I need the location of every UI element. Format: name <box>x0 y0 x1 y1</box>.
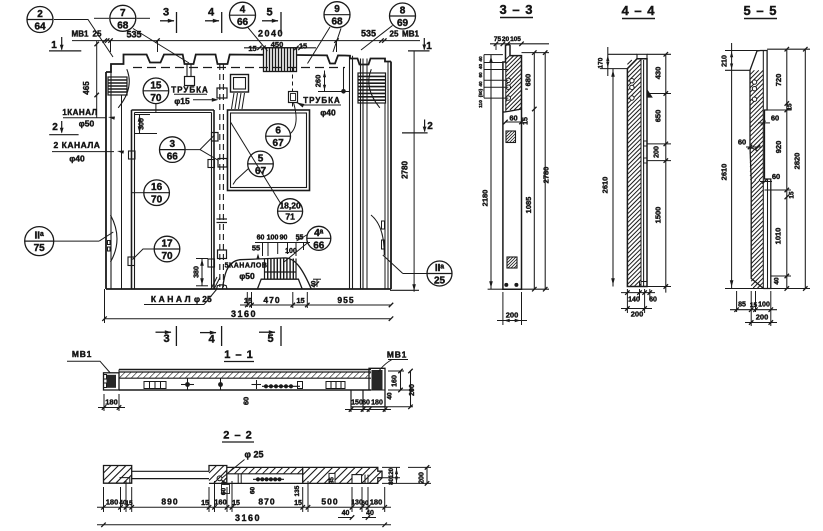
left edge small tabs <box>108 241 111 245</box>
svg-text:535: 535 <box>361 29 376 39</box>
dim 180 below left end <box>103 394 105 411</box>
svg-text:70: 70 <box>150 93 162 104</box>
right edge small tabs <box>382 221 385 229</box>
svg-text:69: 69 <box>397 18 409 29</box>
svg-text:40: 40 <box>478 81 484 87</box>
4-4 circles <box>630 79 634 83</box>
svg-text:(50): (50) <box>478 88 484 97</box>
section 1-1 top flange <box>119 369 371 371</box>
leaders from 4a/66 <box>297 235 308 242</box>
svg-text:170: 170 <box>598 57 605 68</box>
svg-text:90: 90 <box>280 235 288 242</box>
left edge lifting recess arc <box>111 215 118 262</box>
tube bundle below double box <box>232 93 235 109</box>
svg-text:2: 2 <box>52 122 58 133</box>
sub-dim 15 450 15 at comb block <box>244 47 316 49</box>
1-1 anchor dot 1 <box>185 382 190 387</box>
svg-text:66: 66 <box>313 240 325 251</box>
svg-text:ТРУБКА: ТРУБКА <box>303 96 341 105</box>
dim 380 vertical left of mound <box>201 258 203 286</box>
3-3 top right extension <box>522 52 550 54</box>
svg-text:18,20: 18,20 <box>279 201 301 211</box>
5-5 circles <box>752 80 756 84</box>
svg-text:4: 4 <box>208 7 215 19</box>
svg-text:15: 15 <box>789 191 796 199</box>
1-1 dots group (6 holes) <box>264 384 268 388</box>
svg-text:5КАНАЛОВ: 5КАНАЛОВ <box>225 263 268 270</box>
svg-text:140: 140 <box>628 297 640 304</box>
svg-text:180: 180 <box>106 498 119 507</box>
left end arc detail top <box>118 69 129 108</box>
svg-text:1010: 1010 <box>774 228 783 245</box>
svg-text:60: 60 <box>478 72 484 78</box>
svg-text:8: 8 <box>400 6 406 17</box>
dim 300 vertical inside door opening <box>139 114 141 134</box>
svg-text:3160: 3160 <box>235 513 261 523</box>
svg-text:200: 200 <box>506 311 519 320</box>
svg-text:40: 40 <box>478 56 484 62</box>
svg-text:2780: 2780 <box>401 161 410 179</box>
svg-text:80: 80 <box>389 478 395 485</box>
2-2 top strip over channel <box>227 466 303 468</box>
3-3 bottom dim 200 <box>502 292 504 325</box>
svg-text:20: 20 <box>502 36 510 43</box>
svg-text:70: 70 <box>161 251 173 262</box>
svg-text:МВ1: МВ1 <box>72 30 89 39</box>
right edge of panel <box>390 62 392 290</box>
svg-text:2 КАНАЛА: 2 КАНАЛА <box>54 140 101 150</box>
svg-text:100: 100 <box>267 235 279 242</box>
svg-text:60: 60 <box>361 500 369 507</box>
4-4 dim 2610 left <box>612 69 614 287</box>
anchor tab on door right border lower <box>208 259 215 267</box>
svg-text:25: 25 <box>93 30 102 39</box>
svg-text:2180: 2180 <box>481 190 490 207</box>
svg-text:60: 60 <box>257 235 265 242</box>
svg-text:6: 6 <box>275 126 281 137</box>
svg-text:35: 35 <box>330 477 336 484</box>
svg-text:3 – 3: 3 – 3 <box>500 2 534 17</box>
svg-text:φ40: φ40 <box>320 108 336 118</box>
svg-text:66: 66 <box>237 17 249 28</box>
bottom dim row 3160 <box>105 318 392 320</box>
2-2 bottom dim row 3160 <box>97 524 391 526</box>
2-2 notch lines <box>364 475 366 484</box>
svg-text:40: 40 <box>387 392 394 400</box>
2-2 beam (two lines) <box>132 470 209 472</box>
4-4 right dims 430 650 200 1500 <box>665 54 667 292</box>
5-5 dim 2610 left <box>731 76 733 289</box>
hatch lines left of mound <box>211 277 217 289</box>
svg-text:60: 60 <box>362 400 370 407</box>
svg-text:180: 180 <box>371 400 383 407</box>
2-2 step under strip <box>237 474 239 484</box>
svg-text:85: 85 <box>738 302 746 309</box>
svg-text:4ᵃ: 4ᵃ <box>314 228 324 239</box>
4-4 bottom dims 140 60 / 200 <box>626 289 628 313</box>
svg-text:60: 60 <box>772 172 780 181</box>
leader from 8/69 <box>361 26 393 51</box>
svg-text:535: 535 <box>126 30 141 40</box>
svg-text:3: 3 <box>170 139 176 150</box>
svg-text:60: 60 <box>250 487 257 495</box>
2-2 right side dims <box>382 466 400 468</box>
dims above mound: 60 100 90 55 <box>262 243 264 257</box>
leader from 7/68 <box>94 17 109 19</box>
svg-text:160: 160 <box>214 498 227 507</box>
svg-text:25: 25 <box>434 276 446 287</box>
svg-text:135: 135 <box>294 485 301 496</box>
svg-text:15: 15 <box>201 500 209 507</box>
anchor tab on door left border lower <box>128 257 135 266</box>
svg-text:5: 5 <box>267 333 273 345</box>
svg-text:210: 210 <box>722 55 729 67</box>
1-1 left end block MB1 <box>104 373 120 390</box>
section 1-1 body bottom <box>119 389 371 391</box>
vertical channel dashed pair <box>219 64 221 287</box>
callout circle 18,20/71 <box>278 199 303 224</box>
left end anchor zone: hatched block <box>108 77 127 95</box>
left door opening (double border) <box>131 110 133 289</box>
4-4 main bar hatched <box>627 59 647 287</box>
callout circle 16/70 <box>144 180 170 206</box>
striped channel block in mound <box>268 259 294 280</box>
svg-text:ΙΙᵃ: ΙΙᵃ <box>35 231 45 242</box>
svg-text:ТРУБКА: ТРУБКА <box>171 86 209 95</box>
svg-text:60: 60 <box>649 297 657 304</box>
svg-text:955: 955 <box>337 295 354 305</box>
svg-text:15: 15 <box>232 500 240 507</box>
callout circle ΙΙᵃ/75 <box>25 227 54 256</box>
main front view: panel outline with top notches <box>106 55 391 73</box>
svg-text:15: 15 <box>523 117 530 125</box>
svg-text:260: 260 <box>314 75 323 88</box>
H-connector on channel <box>217 218 228 220</box>
5-5 dim 2820 right <box>804 49 806 288</box>
dim 40 small near mound base <box>315 281 319 285</box>
svg-text:40: 40 <box>478 64 484 70</box>
svg-text:180: 180 <box>105 398 118 407</box>
4-4 inner layer lines <box>640 59 642 287</box>
1-1 small void <box>298 382 303 389</box>
2-2 channel dots <box>256 477 260 481</box>
svg-text:500: 500 <box>321 497 338 507</box>
svg-text:4: 4 <box>240 5 246 16</box>
svg-text:15: 15 <box>294 500 302 507</box>
leader from 18,20/71 <box>231 122 281 203</box>
bottom dim row 15/470/15/955 <box>240 304 391 306</box>
leader from 2/64 <box>54 20 113 58</box>
svg-text:2: 2 <box>37 9 43 20</box>
svg-text:МВ1: МВ1 <box>387 350 407 360</box>
svg-text:450: 450 <box>271 40 284 49</box>
3-3 left stacked dims <box>484 54 503 56</box>
svg-text:64: 64 <box>34 22 46 33</box>
small hump left of mound (kanal 25 exit) <box>217 285 228 289</box>
svg-text:1085: 1085 <box>524 197 533 214</box>
junction box on channel 3 <box>218 250 227 259</box>
svg-text:67: 67 <box>273 138 285 149</box>
3-3 dim 2180 left <box>490 55 492 290</box>
1-1 anchor dot 2 <box>218 382 223 387</box>
callout circle 4ᵃ/66 <box>307 226 331 250</box>
leader from 16/70 <box>132 192 144 194</box>
bottom edge of panel <box>106 288 391 290</box>
svg-text:25: 25 <box>390 30 399 39</box>
leader from 5/67 <box>233 169 249 185</box>
svg-text:160: 160 <box>392 375 399 387</box>
callout circle 5/67 <box>248 151 274 177</box>
svg-text:300: 300 <box>139 118 146 130</box>
svg-text:75: 75 <box>34 243 46 254</box>
callout circle ΙΙᵃ/25 <box>427 261 452 286</box>
svg-text:68: 68 <box>331 17 343 28</box>
window opening (double border) <box>228 110 310 191</box>
svg-text:МВ1: МВ1 <box>72 349 92 359</box>
svg-text:380: 380 <box>194 266 201 278</box>
svg-text:4: 4 <box>208 334 215 346</box>
svg-text:ΙΙᵃ: ΙΙᵃ <box>435 263 445 274</box>
svg-text:15: 15 <box>244 296 252 305</box>
svg-text:465: 465 <box>82 81 91 95</box>
svg-text:200: 200 <box>419 472 426 484</box>
vertical joint lines right part <box>349 56 351 289</box>
4-4 right wedge detail <box>647 90 652 98</box>
svg-text:15: 15 <box>299 42 307 51</box>
svg-text:75: 75 <box>494 36 502 43</box>
anchor tab on door left border upper <box>129 151 136 159</box>
svg-text:2820: 2820 <box>793 153 802 170</box>
svg-text:15: 15 <box>787 103 794 111</box>
svg-text:180: 180 <box>370 498 383 507</box>
right end arc detail top <box>369 69 380 108</box>
top dimension line with 535 / 2040 / 535 <box>72 40 420 42</box>
svg-text:200: 200 <box>654 146 661 158</box>
kanal f25 hole in pier <box>217 476 222 481</box>
svg-text:2610: 2610 <box>601 177 610 194</box>
4-4 top peak <box>637 54 647 59</box>
callout circle 8/69 <box>390 3 416 29</box>
svg-text:φ50: φ50 <box>79 119 95 129</box>
5-5 dim 210 left top <box>731 43 733 76</box>
5-5 bottom ext line <box>725 288 810 290</box>
leaders from 3/66 <box>185 135 214 150</box>
right side dims of 1-1: 160 40 200 <box>388 370 404 372</box>
callout circle 17/70 <box>154 236 180 262</box>
5-5 right dims 720 15 920 15 1010 40 <box>786 49 788 288</box>
svg-text:70: 70 <box>151 195 163 206</box>
svg-text:100: 100 <box>758 302 770 309</box>
svg-text:200: 200 <box>756 313 769 322</box>
2-2 right hatched block <box>303 467 382 483</box>
leader from 17/70 <box>133 249 155 260</box>
svg-text:890: 890 <box>161 497 178 507</box>
svg-text:φ40: φ40 <box>69 154 85 164</box>
3-3 main bar <box>503 45 522 289</box>
3-3 dim 1085 <box>533 122 535 289</box>
dims 150 60 180 below right end <box>350 393 352 412</box>
svg-text:1КАНАЛ: 1КАНАЛ <box>62 108 97 117</box>
3-3 head slant bottom <box>505 109 522 112</box>
svg-text:105: 105 <box>510 36 521 43</box>
top center comb block (hatched insert 450) <box>264 48 297 72</box>
double box fitting (trubka) center <box>231 75 249 93</box>
svg-text:φ: φ <box>194 294 200 304</box>
svg-text:3160: 3160 <box>231 309 257 319</box>
svg-text:870: 870 <box>258 497 275 507</box>
svg-text:φ15: φ15 <box>174 96 190 106</box>
3-3 bottom dots <box>504 283 508 287</box>
svg-text:2 – 2: 2 – 2 <box>223 430 252 442</box>
box fitting right (trubka f40) <box>289 92 298 103</box>
svg-text:100: 100 <box>285 248 297 255</box>
svg-text:9: 9 <box>334 4 340 15</box>
svg-text:φ50: φ50 <box>239 271 255 281</box>
1-1 void with bars 1 <box>144 382 166 389</box>
anchor tab on door right border mid <box>212 133 219 142</box>
5-5 step at 147 <box>750 147 758 151</box>
svg-text:66: 66 <box>167 152 179 163</box>
3-3 top dims 75 20 105 <box>490 43 549 45</box>
svg-text:7: 7 <box>120 8 126 19</box>
5-5 bottom dims 85 15 100 / 200 <box>736 291 738 312</box>
svg-text:60: 60 <box>771 114 779 123</box>
3-3 embed squares <box>506 131 516 143</box>
svg-text:3: 3 <box>163 333 169 345</box>
2-2 left end block <box>104 466 132 484</box>
svg-text:5 – 5: 5 – 5 <box>744 3 778 18</box>
callout circle 4/66 <box>230 2 256 28</box>
svg-text:’ 680: ’ 680 <box>524 74 533 90</box>
stem and box under notch 2 <box>186 64 188 77</box>
5-5 hatch upper <box>750 70 763 180</box>
svg-text:720: 720 <box>774 74 783 87</box>
svg-text:920: 920 <box>774 141 783 154</box>
svg-text:15: 15 <box>296 296 304 305</box>
leader from 15/70 <box>155 104 157 112</box>
svg-text:16: 16 <box>151 182 163 193</box>
svg-text:2780: 2780 <box>542 167 551 184</box>
svg-text:4 – 4: 4 – 4 <box>622 3 656 18</box>
left edge of panel <box>105 72 107 289</box>
svg-text:120: 120 <box>389 467 395 478</box>
svg-text:φ 25: φ 25 <box>245 450 264 460</box>
svg-text:1: 1 <box>51 40 57 51</box>
2-2 bottom dim row 1 <box>97 506 391 508</box>
4-4 foot detail <box>641 281 647 283</box>
1-1 right leg <box>351 390 363 407</box>
junction box on channel 1 <box>217 88 227 98</box>
3-3 hatched head <box>506 56 522 110</box>
svg-text:200: 200 <box>631 310 644 319</box>
5-5 hatch lower <box>751 180 763 288</box>
svg-text:2610: 2610 <box>720 164 729 181</box>
svg-text:430: 430 <box>654 67 663 80</box>
4-4 right notches at 200 <box>644 141 647 146</box>
callout circle 2/64 <box>27 7 53 33</box>
svg-text:470: 470 <box>263 295 280 305</box>
callout circle 9/68 <box>324 2 350 28</box>
svg-text:15: 15 <box>248 44 256 53</box>
anchor tab on door right border upper <box>208 160 215 168</box>
svg-text:5: 5 <box>258 153 264 164</box>
4-4 top dim 170 <box>608 53 637 55</box>
svg-text:15: 15 <box>125 500 133 507</box>
leader from 4/66 <box>248 27 268 51</box>
svg-text:2040: 2040 <box>258 29 284 39</box>
5-5 main profile <box>750 51 771 289</box>
leaders from 9/68 <box>308 27 331 64</box>
callout circle 6/67 <box>266 124 291 149</box>
svg-text:25: 25 <box>202 294 212 304</box>
2-2 center pier <box>209 466 227 484</box>
svg-text:15: 15 <box>750 302 758 309</box>
svg-text:1500: 1500 <box>654 207 663 224</box>
callout circle 3/66 <box>160 137 186 163</box>
callout circle 7/68 <box>110 5 136 31</box>
callout circle 15/70 <box>143 78 169 104</box>
dim extension right 2780 <box>413 51 415 292</box>
3-3 dim 2780 right <box>544 53 546 290</box>
1-1 void with bars 2 <box>326 382 345 389</box>
2-2 void in right block <box>352 475 362 484</box>
svg-text:60: 60 <box>242 397 251 405</box>
svg-text:3: 3 <box>163 7 169 19</box>
small fitting dot right <box>341 89 346 94</box>
svg-text:200: 200 <box>409 384 416 396</box>
svg-text:КАНАЛ: КАНАЛ <box>151 294 193 304</box>
svg-text:МВ1: МВ1 <box>402 30 419 39</box>
svg-text:17: 17 <box>161 239 173 250</box>
right end anchor zone: hatched block <box>358 73 386 103</box>
svg-text:60: 60 <box>738 138 746 147</box>
svg-text:40: 40 <box>342 510 350 517</box>
svg-text:650: 650 <box>654 110 663 123</box>
2-2 channel bottom line <box>209 482 303 484</box>
svg-text:15: 15 <box>150 80 162 91</box>
leader from 6/67 <box>290 103 296 134</box>
base trapezoid of mound <box>257 279 302 289</box>
3-3 dim 680 <box>533 53 535 122</box>
dimension 260 vertical <box>324 71 326 92</box>
svg-text:55: 55 <box>252 244 260 253</box>
right edge lifting recess arc <box>371 215 384 255</box>
junction box on channel 2 <box>218 159 227 168</box>
1-1 right end block MB1 <box>363 368 385 407</box>
svg-text:40: 40 <box>774 277 781 285</box>
dashed horizontal line (hidden top channel) <box>133 67 345 69</box>
1-1 tick mid <box>252 384 262 386</box>
svg-text:1 – 1: 1 – 1 <box>224 349 253 361</box>
3-3 head circles <box>506 78 510 82</box>
svg-text:5: 5 <box>266 7 272 19</box>
svg-text:60: 60 <box>509 114 517 123</box>
svg-text:110: 110 <box>478 100 484 108</box>
5-5 inner lines <box>762 51 764 110</box>
5-channel mound at bottom center <box>223 258 312 289</box>
svg-text:2: 2 <box>427 121 433 132</box>
dim 465 vertical top left <box>96 41 98 118</box>
svg-text:71: 71 <box>285 212 295 222</box>
